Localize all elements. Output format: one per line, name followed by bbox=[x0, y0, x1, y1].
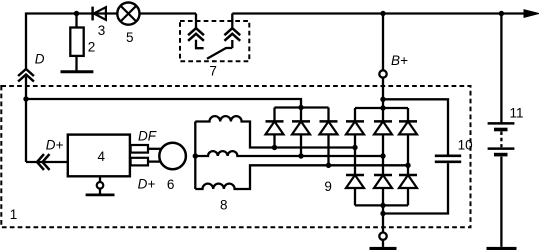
ground (alternator case) bbox=[370, 247, 397, 250]
rotor slip rings 6 bbox=[159, 143, 186, 170]
connector right of switch 7 bbox=[224, 28, 240, 41]
field diode D9b bbox=[292, 121, 310, 134]
wire top bus right segment bbox=[232, 12, 525, 14]
arrow to loads (right end of top bus) bbox=[524, 10, 539, 18]
svg-text:D: D bbox=[35, 52, 45, 67]
indicator lamp L5 bbox=[117, 3, 139, 25]
node: negative rail centre bbox=[380, 203, 385, 208]
svg-text:1: 1 bbox=[10, 207, 18, 222]
diode D3 cathode bar bbox=[91, 7, 94, 21]
alternator enclosure box 1 (dashed) bbox=[1, 86, 470, 227]
node: capacitor tap on B+ bbox=[380, 97, 385, 102]
wire bridge column 1 bbox=[354, 108, 356, 205]
node: B+ tap on top bus bbox=[380, 11, 385, 16]
battery G11 cell 2 positive plate bbox=[488, 147, 515, 150]
wire battery positive lead bbox=[500, 14, 502, 124]
svg-text:2: 2 bbox=[88, 39, 96, 54]
battery G11 cell 2 negative plate bbox=[494, 153, 508, 157]
node: phase 3 junction bbox=[405, 163, 410, 168]
node: D branch junction bbox=[23, 96, 28, 101]
node: capacitor return junction bbox=[380, 211, 385, 216]
rectifier diode D9 minus-1 bbox=[346, 175, 364, 188]
svg-text:D+: D+ bbox=[46, 138, 64, 153]
diode D3 triangle bbox=[94, 7, 106, 20]
wire bridge column 2 bbox=[382, 108, 384, 205]
resistor R2 bbox=[70, 28, 83, 56]
node: phase 1 junction bbox=[352, 145, 357, 150]
field diode D9c bbox=[320, 121, 338, 134]
diode trio rail (node D) bbox=[275, 106, 329, 108]
node: trio tap phase 1 bbox=[272, 145, 277, 150]
wire bridge column 3 bbox=[407, 108, 409, 205]
rectifier negative rail bbox=[355, 204, 408, 206]
wire switch blade riser bbox=[231, 40, 233, 48]
lamp L5 cross bbox=[121, 6, 137, 22]
svg-text:9: 9 bbox=[324, 179, 332, 194]
ground (battery negative) bbox=[487, 247, 517, 250]
field diode D9a bbox=[266, 121, 284, 134]
stator star-point bus bbox=[194, 122, 196, 190]
stator winding L8b (middle phase) bbox=[195, 151, 383, 156]
wire trio diode 1 leads bbox=[273, 108, 275, 148]
wire B+ vertical bbox=[382, 14, 384, 109]
brush D+ (lower) bbox=[131, 158, 148, 166]
terminal circle (regulator ground) bbox=[97, 182, 104, 189]
battery G11 inter-cell link (dashed) bbox=[500, 132, 502, 148]
node: star point bbox=[193, 153, 198, 158]
stator winding L8c (bottom phase) bbox=[195, 165, 408, 189]
ignition switch enclosure box 7 (dashed) bbox=[180, 21, 249, 61]
node: trio feed junction bbox=[298, 105, 303, 110]
svg-text:D+: D+ bbox=[138, 177, 156, 192]
wire trio diode 3 leads bbox=[327, 108, 329, 166]
stator winding L8a (top phase) bbox=[195, 116, 355, 147]
wire trio diode 2 leads bbox=[300, 108, 302, 157]
terminal circle (alternator ground) bbox=[379, 233, 386, 240]
svg-text:5: 5 bbox=[126, 30, 134, 45]
wire out of switch (right riser) bbox=[231, 14, 233, 29]
wire regulator ground lead bbox=[99, 176, 101, 195]
wire switch fixed contact bbox=[196, 40, 204, 48]
node: trio tap phase 3 bbox=[326, 163, 331, 168]
svg-text:B+: B+ bbox=[391, 53, 408, 68]
connector left of switch 7 bbox=[188, 28, 204, 41]
capacitor C10 bottom plate bbox=[435, 161, 461, 164]
svg-text:4: 4 bbox=[98, 149, 106, 164]
svg-text:10: 10 bbox=[458, 138, 473, 153]
rectifier diode D9 minus-2 bbox=[374, 175, 392, 188]
ground (below resistor 2) bbox=[61, 70, 94, 73]
wire D+ into regulator bbox=[26, 161, 68, 163]
wire lower brush lead bbox=[148, 160, 162, 162]
wire top bus left segment bbox=[26, 14, 196, 70]
brush DF (upper) bbox=[131, 145, 148, 153]
voltage regulator U4 bbox=[68, 135, 130, 177]
capacitor C10 top plate bbox=[435, 155, 461, 158]
rectifier diode D9 plus-3 bbox=[399, 121, 417, 134]
wire capacitor top lead bbox=[383, 99, 448, 154]
wire battery negative lead bbox=[500, 157, 502, 247]
node: resistor tap on top bus bbox=[74, 11, 79, 16]
rectifier diode D9 plus-2 bbox=[374, 121, 392, 134]
svg-text:DF: DF bbox=[138, 128, 157, 143]
connector D (plug symbol) bbox=[18, 69, 34, 82]
node: phase 2 junction bbox=[380, 153, 385, 158]
ground (below regulator 4) bbox=[86, 193, 115, 196]
node: battery tap on top bus bbox=[499, 11, 504, 16]
rectifier diode D9 minus-3 bbox=[399, 175, 417, 188]
wire negative rail to ground bbox=[382, 205, 384, 247]
svg-text:3: 3 bbox=[98, 23, 106, 38]
connector D+ bbox=[37, 154, 50, 170]
switch blade S7 bbox=[207, 48, 232, 59]
svg-text:8: 8 bbox=[220, 198, 228, 213]
svg-text:6: 6 bbox=[167, 177, 175, 192]
wire D vertical down to regulator branch bbox=[25, 77, 27, 163]
wire resistor branch bbox=[75, 14, 77, 72]
rectifier diode D9 plus-1 bbox=[346, 121, 364, 134]
svg-text:7: 7 bbox=[209, 63, 217, 78]
wire upper brush lead bbox=[148, 148, 162, 150]
rectifier positive rail bbox=[355, 107, 408, 109]
svg-text:11: 11 bbox=[509, 106, 523, 121]
node: trio tap phase 2 bbox=[298, 153, 303, 158]
wire into switch (left drop) bbox=[195, 14, 197, 29]
wire capacitor bottom lead bbox=[383, 163, 448, 213]
battery G11 cell 1 positive plate bbox=[488, 122, 515, 125]
wire D node to diode trio rail bbox=[26, 99, 301, 108]
terminal B+ (circle) bbox=[379, 70, 386, 77]
node: B+ on positive rail bbox=[380, 105, 385, 110]
battery G11 cell 1 negative plate bbox=[494, 128, 508, 132]
